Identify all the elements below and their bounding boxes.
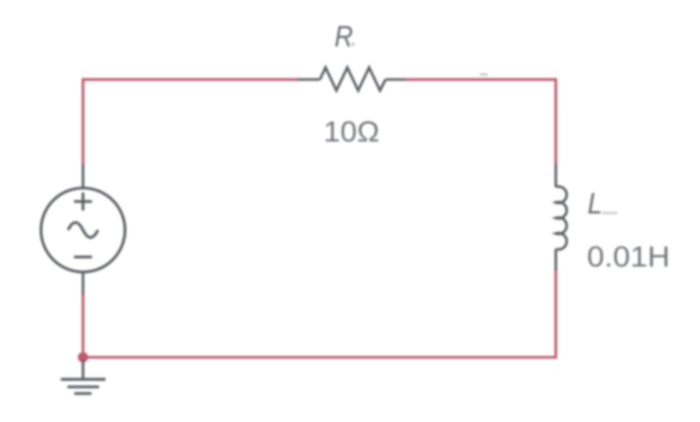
wire: bottom red segment (inductor bottom, around to source bottom) <box>83 270 556 358</box>
voltage source V1 circle <box>41 188 125 272</box>
voltage source V1 sine symbol <box>68 223 98 238</box>
voltage source V1 stubs <box>82 165 85 295</box>
voltage source V1 minus sign <box>74 256 92 259</box>
resistor R1 zigzag body <box>320 68 386 91</box>
voltage source V1 plus sign <box>74 193 92 211</box>
ground stub <box>82 360 85 379</box>
wire: top-right red segment (resistor right lead to inductor top) <box>405 80 556 166</box>
faint artifact dash above top wire <box>480 74 488 76</box>
resistor R1 leads <box>298 78 406 81</box>
label L1 faint empty subscript underline <box>602 212 618 215</box>
ground bar 1 <box>61 378 106 381</box>
inductor L1 coil bumps <box>556 187 567 250</box>
inductor L1 leads <box>554 164 557 271</box>
wire: top-left red segment (source top to resistor left lead) <box>83 80 298 167</box>
svg-text:0.01H: 0.01H <box>587 242 670 274</box>
label R1 faint subscript dot <box>352 43 355 47</box>
ground bar 3 <box>74 392 91 395</box>
svg-text:L: L <box>588 188 603 221</box>
node junction dot (ground node) <box>78 352 88 362</box>
svg-text:R: R <box>335 21 354 54</box>
ground bar 2 <box>67 385 99 388</box>
svg-text:10Ω: 10Ω <box>324 117 380 149</box>
